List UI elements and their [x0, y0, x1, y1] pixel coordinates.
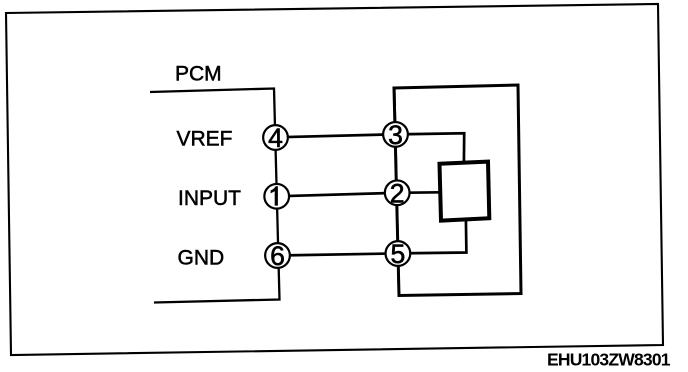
svg-text:4: 4 — [268, 123, 283, 153]
svg-text:5: 5 — [391, 239, 406, 269]
label GND — [178, 247, 225, 270]
svg-text:2: 2 — [390, 179, 405, 209]
PCM connector bracket — [150, 89, 280, 303]
label PCM — [175, 63, 222, 86]
wire pin2 to sensing element left — [397, 191, 440, 194]
svg-text:GND: GND — [178, 247, 225, 270]
pin 5 — [386, 239, 411, 269]
wire pin5 to sensing element bottom — [398, 219, 467, 253]
wire pin3 to sensing element top — [396, 133, 465, 163]
svg-text:6: 6 — [270, 241, 285, 271]
label INPUT — [178, 187, 241, 210]
wire INPUT pin1 to pin2 — [277, 193, 398, 197]
pin 3 — [383, 120, 408, 150]
pin 1 — [264, 184, 289, 209]
pin 4 — [263, 123, 288, 153]
pin 6 — [265, 241, 290, 271]
wire sensor left bus through pins 3-2-5 — [394, 88, 399, 295]
svg-text:EHU103ZW8301: EHU103ZW8301 — [547, 350, 671, 370]
label VREF — [177, 128, 233, 151]
svg-text:PCM: PCM — [175, 63, 222, 86]
pin 2 — [385, 179, 410, 209]
figure code EHU103ZW8301 — [547, 350, 671, 370]
sensing element box — [440, 162, 490, 221]
svg-text:INPUT: INPUT — [178, 187, 241, 210]
svg-text:VREF: VREF — [177, 128, 233, 151]
sensor outer box — [394, 85, 521, 296]
svg-text:3: 3 — [388, 120, 403, 150]
wire GND pin6 to pin5 — [278, 253, 398, 255]
wire VREF pin4 to pin3 — [276, 134, 396, 137]
